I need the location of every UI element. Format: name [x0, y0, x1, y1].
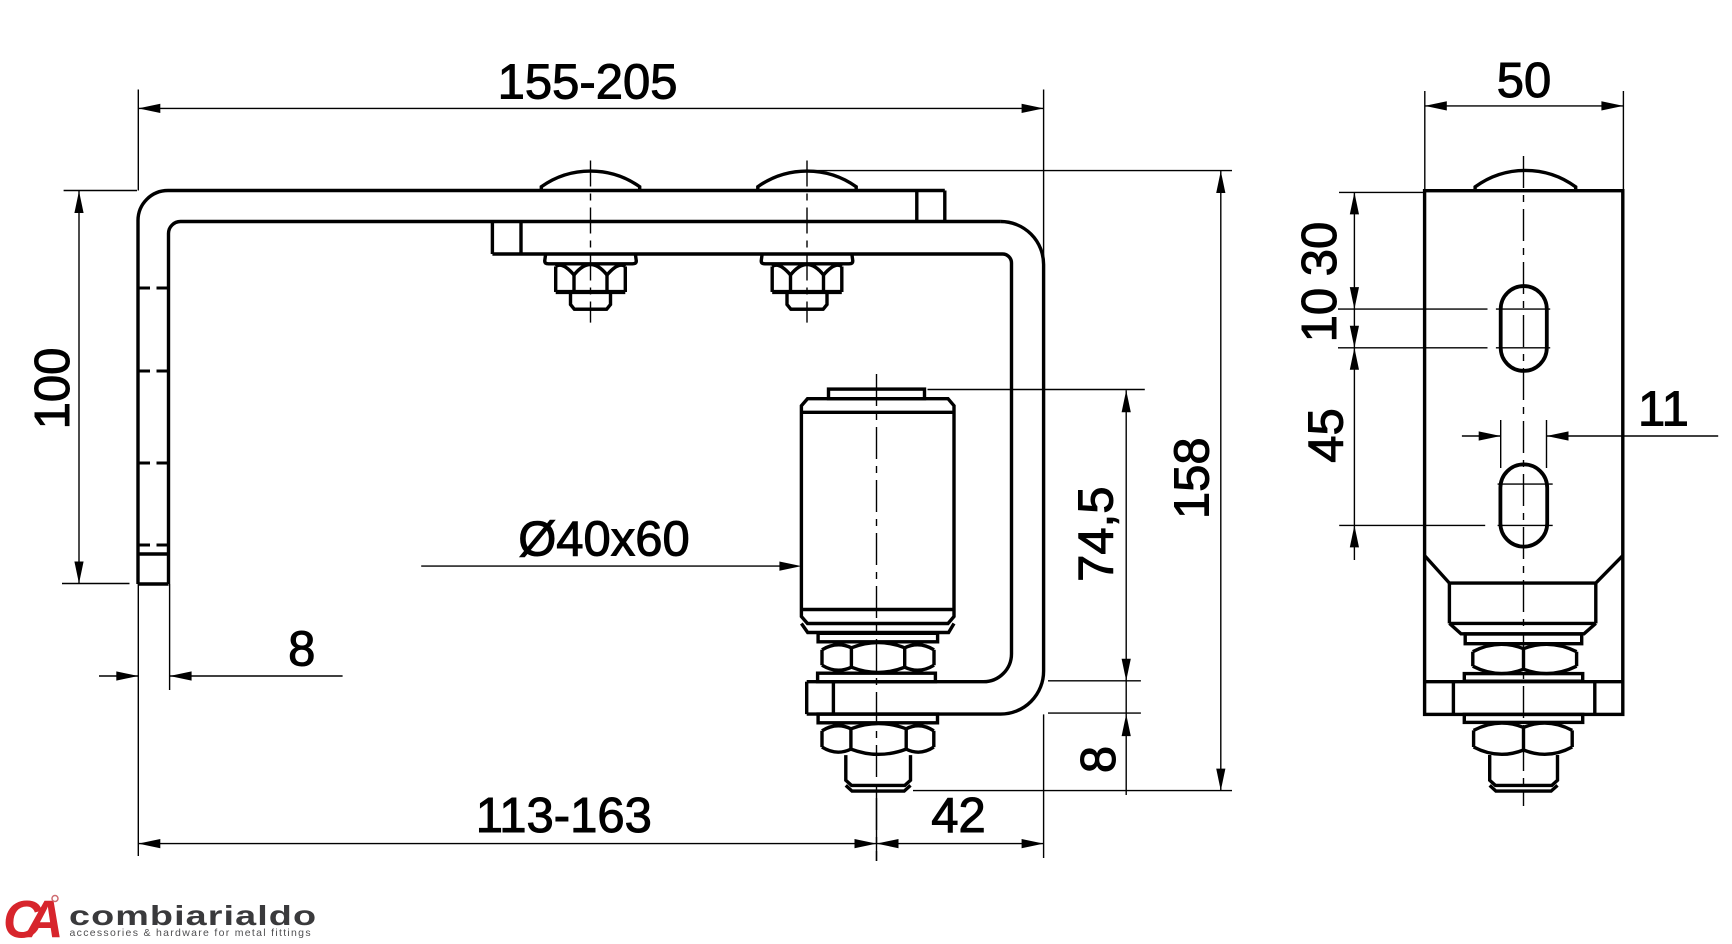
washer under roller	[801, 624, 954, 633]
dimensions 30 / 10 / 45	[1339, 191, 1425, 193]
svg-text:113-163: 113-163	[476, 789, 652, 843]
svg-text:155-205: 155-205	[498, 56, 678, 110]
side view nut N2	[1472, 730, 1475, 747]
svg-text:10: 10	[1293, 288, 1347, 343]
slot hole 1	[1501, 286, 1547, 371]
svg-text:accessories & hardware for met: accessories & hardware for metal fitting…	[70, 927, 312, 939]
clamp bolt B2 dome head	[758, 171, 856, 190]
washer above bottom plate	[818, 673, 936, 682]
threaded pin end	[846, 755, 911, 785]
washer below bottom plate	[818, 714, 937, 723]
side view centerline	[1523, 156, 1525, 806]
dimension 155-205	[137, 90, 139, 191]
roller centerline	[876, 374, 878, 861]
dimension 113-163	[876, 791, 878, 861]
side view washer 3	[1464, 714, 1582, 722]
dimension 158	[810, 170, 1232, 172]
svg-text:158: 158	[1165, 437, 1219, 519]
clamp bolt B2 centerline	[806, 161, 808, 323]
dimension 8 (plate thickness)	[1048, 712, 1141, 714]
side view washer 1	[1465, 634, 1582, 644]
side view bottom plate bar	[1425, 680, 1623, 683]
leg tick marks	[140, 287, 151, 290]
svg-text:11: 11	[1638, 383, 1689, 437]
clamp bolt B2 nut and thread stub	[761, 254, 853, 263]
clamp bolt B1 dome head	[541, 171, 639, 190]
clamp bolt B1 centerline	[590, 161, 592, 323]
side view washer 2	[1464, 674, 1582, 682]
dimension 42	[877, 843, 1044, 845]
upper pin nut N1	[820, 650, 823, 665]
dimension 100	[64, 190, 137, 192]
side view mounting plate	[1425, 191, 1623, 715]
slot2 upper arc centermark	[1498, 483, 1553, 485]
side view threaded pin end	[1490, 755, 1558, 785]
svg-text:8: 8	[1072, 746, 1126, 773]
wall bracket piece 1 (vertical leg + top arm)	[138, 191, 945, 585]
roller Ø40x60 cylinder	[829, 389, 925, 399]
dimension 74,5	[928, 389, 1145, 391]
label Ø40x60 with leader	[421, 565, 795, 567]
dimension 50	[1424, 91, 1426, 190]
svg-text:45: 45	[1300, 408, 1354, 463]
svg-text:100: 100	[26, 348, 80, 430]
side view roller silhouette	[1425, 556, 1623, 584]
side view nut N1	[1471, 652, 1474, 667]
lower pin nut N2	[820, 731, 823, 747]
svg-text:42: 42	[931, 789, 986, 843]
side view dome bolt head	[1475, 170, 1576, 190]
Combi Arialdo logo	[3, 891, 317, 944]
slot hole 2	[1500, 464, 1547, 546]
svg-text:30: 30	[1293, 222, 1347, 277]
svg-text:8: 8	[288, 623, 315, 677]
clamp bolt B1 nut and thread stub	[545, 254, 637, 263]
svg-text:Ø40x60: Ø40x60	[518, 513, 690, 567]
roller holder piece 2 (top plate + right bend + bottom plate)	[807, 222, 1044, 715]
svg-text:74,5: 74,5	[1070, 487, 1124, 582]
dimension 11	[1500, 420, 1502, 468]
svg-text:50: 50	[1497, 54, 1552, 108]
dimension 8 (leg thickness)	[137, 584, 139, 856]
